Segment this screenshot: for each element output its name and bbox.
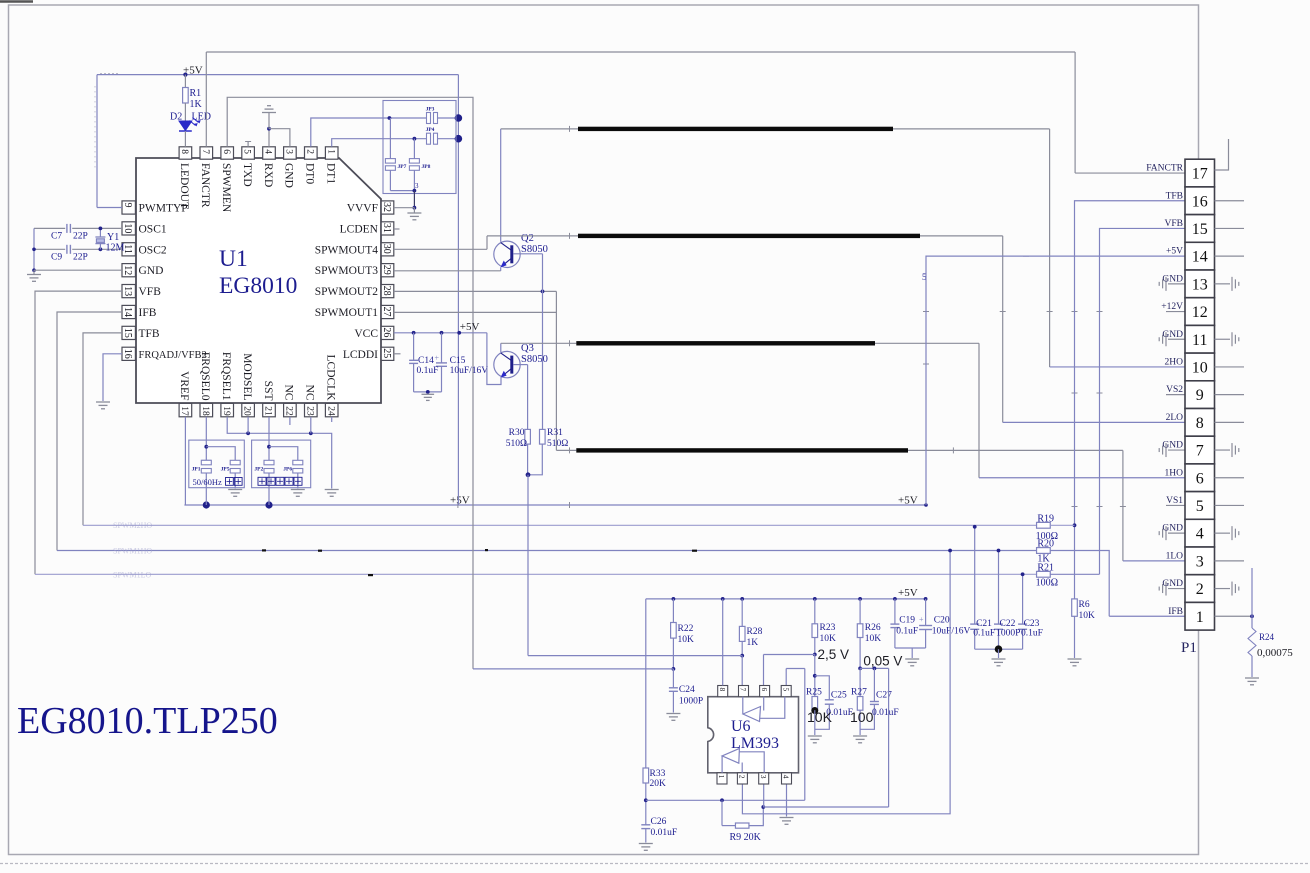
svg-text:22P: 22P: [73, 253, 88, 263]
svg-text:LED: LED: [192, 112, 211, 123]
svg-text:1: 1: [1196, 609, 1204, 626]
svg-text:8: 8: [718, 688, 727, 692]
svg-text:GND: GND: [1162, 441, 1183, 451]
svg-text:8: 8: [179, 149, 189, 154]
svg-text:4: 4: [1196, 526, 1204, 543]
svg-text:9: 9: [122, 203, 133, 208]
svg-text:GND: GND: [283, 163, 295, 188]
svg-text:2HO: 2HO: [1165, 357, 1184, 367]
svg-text:TXD: TXD: [241, 163, 253, 187]
svg-text:R22: R22: [678, 624, 694, 634]
svg-text:6: 6: [1196, 470, 1204, 487]
svg-text:R1: R1: [190, 88, 202, 99]
svg-text:20K: 20K: [650, 779, 667, 789]
svg-text:OSC1: OSC1: [139, 223, 167, 235]
svg-text:6: 6: [221, 149, 231, 154]
svg-text:FANCTR: FANCTR: [1146, 164, 1183, 174]
svg-text:R24: R24: [1259, 632, 1275, 642]
svg-text:+5V: +5V: [460, 321, 480, 333]
svg-text:19: 19: [221, 406, 231, 416]
svg-text:13: 13: [1192, 276, 1208, 293]
svg-text:R27: R27: [851, 688, 867, 698]
svg-text:7: 7: [200, 149, 210, 154]
svg-text:1: 1: [717, 775, 726, 779]
svg-text:+5V: +5V: [450, 495, 470, 507]
svg-text:DT1: DT1: [325, 163, 337, 184]
svg-text:OSC2: OSC2: [139, 244, 167, 256]
svg-text:0.1uF: 0.1uF: [896, 627, 918, 637]
svg-text:0,00075: 0,00075: [1257, 647, 1293, 659]
svg-text:1: 1: [325, 149, 335, 154]
svg-text:22: 22: [284, 406, 294, 416]
svg-text:TFB: TFB: [139, 328, 160, 340]
svg-text:25: 25: [381, 348, 392, 358]
svg-text:SPWMEN: SPWMEN: [220, 163, 232, 213]
svg-text:VS2: VS2: [1166, 385, 1183, 395]
svg-text:2: 2: [1196, 581, 1204, 598]
svg-text:LCDEN: LCDEN: [340, 223, 379, 235]
svg-text:10K: 10K: [1079, 611, 1096, 621]
svg-text:VFB: VFB: [1165, 219, 1183, 229]
svg-text:15: 15: [122, 328, 133, 338]
svg-text:VCC: VCC: [354, 328, 378, 340]
svg-text:C20: C20: [934, 616, 950, 626]
svg-text:0.01uF: 0.01uF: [872, 708, 899, 718]
svg-text:0.1uF: 0.1uF: [417, 366, 439, 376]
svg-text:16: 16: [122, 349, 133, 359]
svg-text:JP6: JP6: [283, 467, 292, 473]
svg-text:5: 5: [242, 149, 252, 154]
svg-text:LCDCLK: LCDCLK: [325, 355, 337, 402]
svg-text:VREF: VREF: [178, 371, 190, 400]
svg-text:GND: GND: [139, 265, 164, 277]
svg-text:18: 18: [200, 406, 210, 416]
svg-text:PWMTYP: PWMTYP: [139, 203, 188, 215]
svg-text:SPWMOUT2: SPWMOUT2: [315, 286, 379, 298]
svg-text:0.1uF: 0.1uF: [1021, 629, 1043, 639]
svg-text:10K: 10K: [807, 709, 833, 725]
svg-text:SPWMOUT3: SPWMOUT3: [315, 265, 379, 277]
svg-text:13: 13: [122, 286, 133, 296]
svg-text:C7: C7: [51, 232, 62, 242]
svg-text:23: 23: [304, 406, 314, 416]
svg-text:SPWM1HO: SPWM1HO: [113, 547, 152, 556]
svg-text:C15: C15: [450, 356, 466, 366]
svg-text:16: 16: [1192, 193, 1208, 210]
svg-text:SST: SST: [262, 381, 274, 401]
svg-text:VVVF: VVVF: [347, 203, 378, 215]
svg-text:1K: 1K: [747, 638, 759, 648]
svg-text:R21: R21: [1037, 563, 1054, 574]
svg-text:17: 17: [179, 406, 189, 416]
svg-text:C21: C21: [976, 619, 992, 629]
svg-text:2,5 V: 2,5 V: [818, 647, 850, 662]
svg-text:+12V: +12V: [1161, 302, 1183, 312]
svg-text:14: 14: [1192, 249, 1208, 266]
svg-text:R31: R31: [547, 428, 563, 438]
svg-text:0.1uF: 0.1uF: [973, 629, 995, 639]
svg-text:C23: C23: [1024, 619, 1040, 629]
svg-text:NC: NC: [283, 385, 295, 401]
svg-text:29: 29: [381, 265, 392, 275]
svg-text:1K: 1K: [190, 99, 203, 110]
svg-text:P1: P1: [1181, 640, 1197, 656]
svg-text:+5V: +5V: [1166, 247, 1183, 257]
svg-text:Y1: Y1: [107, 232, 119, 243]
svg-text:510Ω: 510Ω: [506, 439, 527, 449]
svg-text:2LO: 2LO: [1166, 413, 1184, 423]
svg-text:GND: GND: [1162, 274, 1183, 284]
svg-text:12M: 12M: [106, 243, 125, 254]
svg-text:10: 10: [122, 223, 133, 233]
svg-text:3: 3: [1196, 553, 1204, 570]
svg-text:R25: R25: [806, 688, 822, 698]
svg-text:10uF/16V: 10uF/16V: [450, 366, 489, 376]
svg-text:26: 26: [381, 327, 392, 337]
svg-text:510Ω: 510Ω: [547, 439, 568, 449]
svg-text:+5V: +5V: [898, 587, 918, 599]
svg-text:50/60Hz: 50/60Hz: [193, 477, 223, 487]
svg-text:VFB: VFB: [139, 286, 162, 298]
svg-text:JP8: JP8: [422, 164, 431, 170]
svg-text:FRQSEL0: FRQSEL0: [199, 352, 211, 401]
svg-text:3: 3: [759, 775, 768, 779]
svg-text:IFB: IFB: [1168, 607, 1183, 617]
svg-text:R9 20K: R9 20K: [730, 832, 762, 843]
svg-text:1LO: 1LO: [1166, 551, 1184, 561]
svg-text:C26: C26: [651, 817, 667, 827]
svg-text:1000P: 1000P: [679, 697, 703, 707]
svg-text:21: 21: [263, 406, 273, 416]
svg-text:R23: R23: [820, 623, 836, 633]
svg-text:7: 7: [1196, 443, 1204, 460]
svg-text:100: 100: [850, 709, 874, 725]
svg-text:SPWM2HO: SPWM2HO: [113, 521, 152, 530]
svg-text:TFB: TFB: [1166, 191, 1183, 201]
svg-text:JP3: JP3: [426, 107, 435, 113]
svg-text:32: 32: [381, 202, 392, 212]
svg-text:R6: R6: [1079, 600, 1090, 610]
svg-text:SPWMOUT4: SPWMOUT4: [315, 244, 379, 256]
svg-text:31: 31: [381, 223, 392, 233]
svg-text:GND: GND: [1162, 579, 1183, 589]
svg-text:0.01uF: 0.01uF: [651, 828, 678, 838]
svg-text:D2: D2: [170, 112, 182, 123]
svg-text:U1: U1: [219, 246, 248, 272]
svg-text:GND: GND: [1162, 524, 1183, 534]
svg-text:+5V: +5V: [898, 495, 918, 507]
svg-text:10: 10: [1192, 359, 1208, 376]
svg-text:DT0: DT0: [304, 163, 316, 184]
svg-text:11: 11: [1192, 332, 1207, 349]
svg-text:12: 12: [1192, 304, 1208, 321]
svg-text:C25: C25: [831, 691, 847, 701]
svg-text:7: 7: [739, 688, 748, 692]
svg-text:EG8010.TLP250: EG8010.TLP250: [17, 700, 278, 742]
svg-text:2: 2: [738, 775, 747, 779]
svg-text:28: 28: [381, 286, 392, 296]
svg-text:27: 27: [381, 307, 392, 317]
svg-text:6: 6: [760, 688, 769, 692]
svg-text:14: 14: [122, 307, 133, 317]
svg-text:C14: C14: [418, 356, 434, 366]
svg-text:17: 17: [1192, 166, 1208, 183]
svg-text:4: 4: [782, 775, 791, 779]
svg-text:+: +: [919, 615, 924, 624]
svg-text:R26: R26: [865, 623, 881, 633]
svg-text:15: 15: [1192, 221, 1208, 238]
svg-text:JP2: JP2: [254, 467, 263, 473]
svg-text:JP7: JP7: [398, 164, 407, 170]
svg-text:22P: 22P: [73, 232, 88, 242]
svg-text:C9: C9: [51, 253, 62, 263]
svg-text:3: 3: [284, 149, 294, 154]
svg-text:FRQSEL1: FRQSEL1: [220, 352, 232, 401]
svg-text:C22: C22: [1000, 619, 1016, 629]
svg-text:NC: NC: [304, 385, 316, 401]
svg-text:1000P: 1000P: [996, 629, 1020, 639]
svg-text:10K: 10K: [820, 634, 837, 644]
svg-text:R28: R28: [747, 627, 763, 637]
svg-text:10uF/16V: 10uF/16V: [932, 627, 971, 637]
svg-text:R19: R19: [1037, 514, 1054, 525]
svg-text:SPWMOUT1: SPWMOUT1: [315, 307, 379, 319]
svg-text:0,05 V: 0,05 V: [863, 654, 902, 669]
svg-text:100Ω: 100Ω: [1036, 578, 1058, 589]
svg-text:LCDDI: LCDDI: [343, 349, 378, 361]
svg-text:Q3: Q3: [521, 343, 534, 354]
svg-text:2: 2: [304, 149, 314, 154]
svg-text:U6: U6: [731, 718, 751, 735]
svg-text:Q2: Q2: [521, 233, 534, 244]
svg-text:C24: C24: [679, 685, 695, 695]
svg-text:5: 5: [781, 688, 790, 692]
svg-text:R20: R20: [1037, 539, 1054, 550]
svg-text:30: 30: [381, 244, 392, 254]
svg-text:FRQADJ/VFB2: FRQADJ/VFB2: [139, 350, 207, 361]
svg-text:20: 20: [242, 406, 252, 416]
svg-text:JP1: JP1: [192, 467, 201, 473]
svg-text:R33: R33: [650, 769, 666, 779]
svg-text:JP4: JP4: [426, 127, 435, 133]
svg-text:8: 8: [1196, 415, 1204, 432]
svg-text:SPWM1LO: SPWM1LO: [113, 571, 151, 580]
svg-text:EG8010: EG8010: [219, 273, 297, 299]
svg-text:JP5: JP5: [221, 467, 230, 473]
svg-text:C27: C27: [876, 691, 892, 701]
svg-text:IFB: IFB: [139, 307, 157, 319]
svg-text:24: 24: [325, 406, 335, 416]
svg-text:VS1: VS1: [1166, 496, 1183, 506]
svg-text:RXD: RXD: [262, 163, 274, 187]
svg-text:MODSEL: MODSEL: [241, 353, 253, 400]
svg-text:10K: 10K: [865, 634, 882, 644]
svg-text:C19: C19: [899, 616, 915, 626]
svg-text:4: 4: [263, 149, 273, 154]
svg-text:1HO: 1HO: [1165, 468, 1184, 478]
svg-text:12: 12: [122, 265, 133, 275]
svg-text:R30: R30: [509, 428, 525, 438]
svg-text:FANCTR: FANCTR: [199, 163, 211, 208]
svg-text:10K: 10K: [678, 635, 695, 645]
svg-text:5: 5: [1196, 498, 1204, 515]
svg-text:S8050: S8050: [521, 354, 548, 365]
svg-text:GND: GND: [1162, 330, 1183, 340]
svg-text:9: 9: [1196, 387, 1204, 404]
svg-text:3: 3: [415, 182, 419, 190]
svg-text:+: +: [435, 354, 440, 363]
